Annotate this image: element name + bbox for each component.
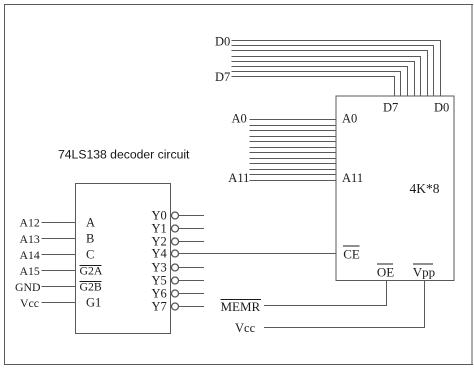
- wire data bus D5: [232, 67, 408, 97]
- svg-text:Vcc: Vcc: [20, 296, 39, 310]
- svg-text:Y6: Y6: [152, 287, 167, 301]
- pin Y5 bubble: [172, 277, 179, 284]
- pin Y1 bubble: [172, 225, 179, 232]
- svg-text:Y7: Y7: [152, 300, 167, 314]
- svg-text:OE: OE: [377, 265, 394, 280]
- wire MEMR to OE pin: [264, 280, 387, 306]
- svg-text:A11: A11: [228, 171, 249, 185]
- wire Y1 stub: [179, 228, 205, 230]
- pin CE label (active low): [343, 246, 360, 262]
- svg-text:4K*8: 4K*8: [410, 181, 440, 196]
- svg-text:GND: GND: [15, 280, 41, 294]
- svg-text:A12: A12: [20, 216, 40, 230]
- wire GND to pin G2B: [42, 286, 76, 288]
- pin Vpp label (active low): [413, 264, 435, 280]
- wire data bus D2: [232, 51, 428, 97]
- pin Y4 bubble: [172, 250, 179, 257]
- pin G2A label (active low): [80, 264, 103, 278]
- wire addr A10: [250, 174, 337, 176]
- svg-text:A15: A15: [20, 264, 40, 278]
- pin Y2 bubble: [172, 238, 179, 245]
- decoder U1 74LS138 box: [75, 183, 170, 333]
- wire addr A11: [250, 180, 337, 182]
- svg-text:Y1: Y1: [152, 222, 167, 236]
- svg-text:Vpp: Vpp: [413, 265, 435, 280]
- svg-text:B: B: [86, 232, 94, 246]
- wire Vcc to Vpp pin: [264, 280, 424, 328]
- wire A12 to pin A: [42, 222, 76, 224]
- wire addr A5: [250, 147, 337, 149]
- wire A14 to pin C: [42, 254, 76, 256]
- node MEMR label (active low): [221, 299, 262, 314]
- svg-text:D7: D7: [215, 70, 230, 84]
- svg-text:Y5: Y5: [152, 274, 167, 288]
- wire addr A9: [250, 169, 337, 171]
- wire addr A8: [250, 163, 337, 165]
- svg-text:A0: A0: [342, 111, 357, 125]
- wire Vcc to pin G1: [42, 302, 76, 304]
- svg-text:D0: D0: [215, 34, 230, 48]
- pin Y0 bubble: [172, 212, 179, 219]
- wire addr A4: [250, 141, 337, 143]
- svg-text:MEMR: MEMR: [221, 299, 261, 314]
- wire addr A7: [250, 158, 337, 160]
- svg-text:D7: D7: [383, 100, 398, 114]
- memory U2 4K*8 box: [336, 96, 454, 280]
- wire addr A2: [250, 130, 337, 132]
- wire data bus D3: [232, 57, 421, 97]
- wire addr A1: [250, 125, 337, 127]
- wire Y7 to MEMR label: [179, 306, 205, 308]
- wire addr A3: [250, 136, 337, 138]
- wire data bus D6: [232, 72, 401, 97]
- svg-text:74LS138 decoder circuit: 74LS138 decoder circuit: [58, 147, 190, 161]
- wire Y5 stub: [179, 280, 205, 282]
- pin Y3 bubble: [172, 264, 179, 271]
- wire data bus D7: [232, 77, 395, 97]
- wire data bus D1: [232, 46, 434, 97]
- svg-text:A0: A0: [232, 111, 247, 125]
- pin Y6 bubble: [172, 290, 179, 297]
- pin G2B label (active low): [80, 280, 102, 294]
- svg-text:CE: CE: [343, 247, 360, 262]
- svg-text:Y3: Y3: [152, 261, 167, 275]
- wire Y2 stub: [179, 241, 205, 243]
- svg-text:A: A: [86, 216, 95, 230]
- svg-text:Y0: Y0: [152, 209, 167, 223]
- svg-text:G1: G1: [86, 296, 101, 310]
- wire data bus D4: [232, 62, 415, 97]
- pin Y7 bubble: [172, 303, 179, 310]
- svg-text:C: C: [86, 248, 94, 262]
- svg-text:A14: A14: [20, 248, 40, 262]
- svg-text:A13: A13: [20, 232, 40, 246]
- wire Y4 to memory CE: [179, 253, 337, 255]
- svg-text:A11: A11: [342, 171, 363, 185]
- svg-text:Vcc: Vcc: [235, 321, 256, 335]
- wire Y6 stub: [179, 293, 205, 295]
- wire addr A0: [250, 119, 337, 121]
- wire A15 to pin G2A: [42, 270, 76, 272]
- wire A13 to pin B: [42, 238, 76, 240]
- wire Y0 stub: [179, 215, 205, 217]
- svg-text:Y4: Y4: [152, 247, 168, 261]
- wire Y3 stub: [179, 267, 205, 269]
- svg-text:D0: D0: [434, 100, 449, 114]
- pin OE label (active low): [377, 264, 394, 280]
- wire addr A6: [250, 152, 337, 154]
- wire data bus D0: [232, 41, 441, 97]
